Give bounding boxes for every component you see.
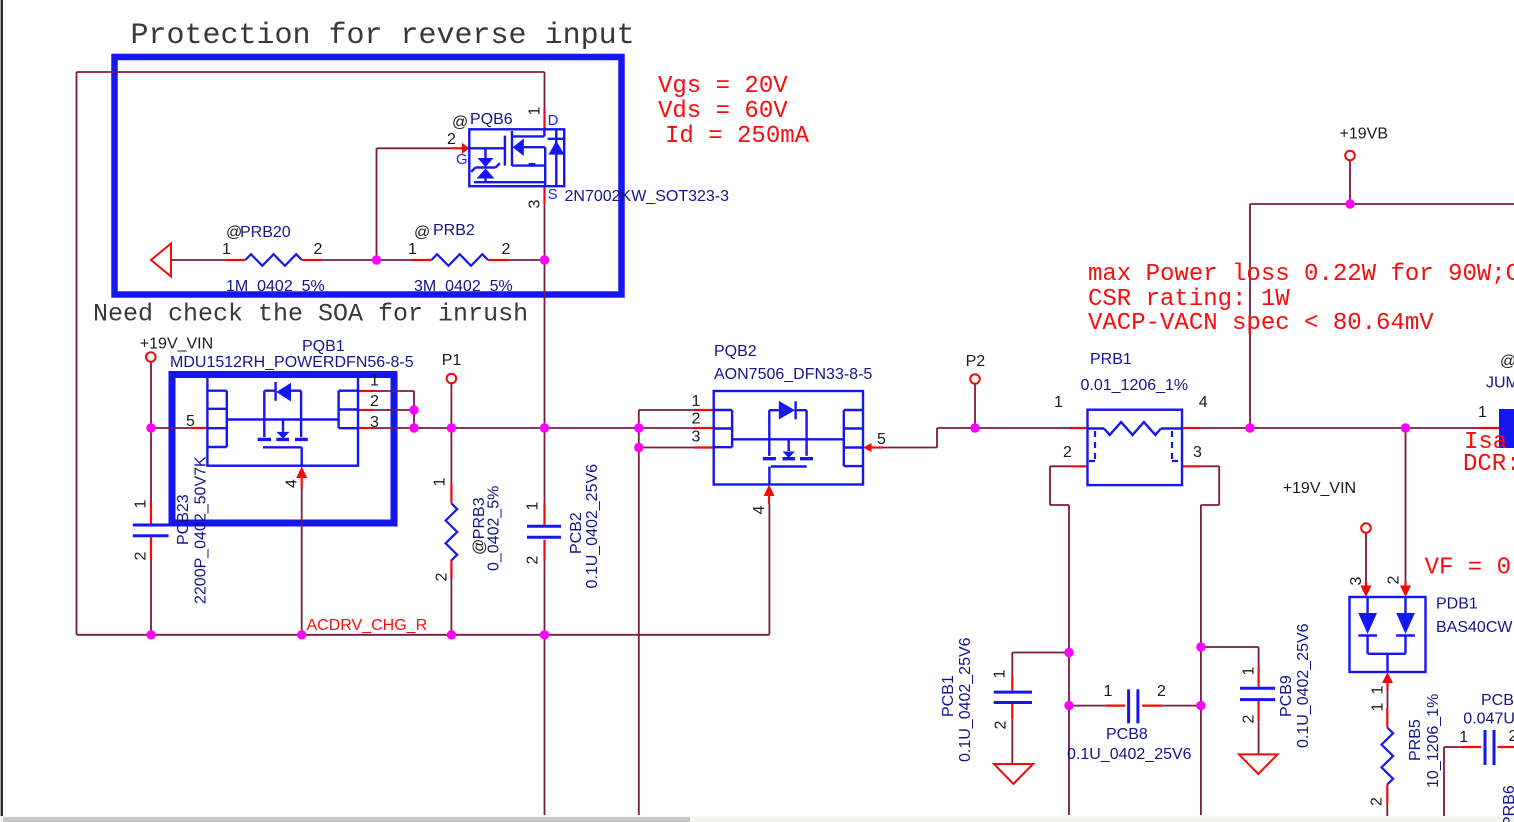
svg-text:PRB5: PRB5 [1407,719,1424,761]
svg-text:1: 1 [222,241,231,258]
svg-text:CSR rating: 1W: CSR rating: 1W [1088,286,1290,313]
svg-text:4: 4 [751,505,768,514]
svg-text:@: @ [471,539,488,555]
svg-text:2: 2 [1157,683,1166,700]
svg-text:@: @ [414,224,430,241]
svg-text:3: 3 [1348,576,1365,585]
svg-text:1: 1 [692,393,701,410]
svg-text:D: D [548,112,559,129]
svg-text:PRB1: PRB1 [1090,351,1132,368]
svg-text:PQB1: PQB1 [302,338,345,355]
svg-text:Vds = 60V: Vds = 60V [658,98,788,125]
svg-text:0.1U_0402_25V6: 0.1U_0402_25V6 [957,637,974,762]
svg-text:1: 1 [525,501,542,510]
svg-text:@: @ [1500,353,1514,370]
svg-text:2: 2 [1509,728,1514,745]
svg-text:3: 3 [1193,444,1202,461]
svg-text:+19V_VIN: +19V_VIN [1283,480,1356,497]
svg-text:BAS40CW: BAS40CW [1436,619,1513,636]
svg-text:4: 4 [1199,394,1208,411]
svg-text:PCB23: PCB23 [175,494,192,545]
svg-text:1: 1 [527,106,544,115]
svg-text:VF = 0: VF = 0 [1425,555,1511,582]
svg-text:0.047U: 0.047U [1463,711,1514,728]
svg-text:1: 1 [992,669,1009,678]
svg-text:PRB20: PRB20 [240,224,291,241]
svg-text:PDB1: PDB1 [1436,596,1478,613]
svg-text:1: 1 [1370,702,1387,711]
svg-text:JUM: JUM [1486,375,1514,392]
svg-text:2: 2 [993,720,1010,729]
svg-text:PRB6: PRB6 [1501,785,1514,822]
svg-text:PCB1: PCB1 [940,675,957,717]
svg-text:3M_0402_5%: 3M_0402_5% [414,278,513,295]
svg-text:2: 2 [1369,797,1386,806]
svg-text:Protection for reverse input: Protection for reverse input [131,19,635,53]
svg-text:PCB8: PCB8 [1106,726,1148,743]
svg-text:PQB2: PQB2 [714,343,757,360]
svg-text:2N7002KW_SOT323-3: 2N7002KW_SOT323-3 [565,188,730,205]
svg-text:2: 2 [692,411,701,428]
svg-text:VACP-VACN spec < 80.64mV: VACP-VACN spec < 80.64mV [1088,310,1434,337]
svg-text:2: 2 [1063,444,1072,461]
svg-text:Id = 250mA: Id = 250mA [665,123,810,150]
svg-text:1: 1 [370,373,379,390]
svg-text:5: 5 [186,413,195,430]
svg-text:+19V_VIN: +19V_VIN [140,336,213,353]
svg-text:PCB2: PCB2 [568,512,585,554]
svg-text:AON7506_DFN33-8-5: AON7506_DFN33-8-5 [714,366,872,383]
svg-text:2: 2 [447,131,456,148]
svg-text:1M_0402_5%: 1M_0402_5% [226,278,325,295]
svg-text:1: 1 [1104,683,1113,700]
svg-text:3: 3 [692,429,701,446]
svg-text:1: 1 [1459,729,1468,746]
svg-text:1: 1 [1478,404,1487,421]
svg-text:5: 5 [877,431,886,448]
svg-text:2200P_0402_50V7K: 2200P_0402_50V7K [192,456,209,604]
svg-text:ACDRV_CHG_R: ACDRV_CHG_R [307,617,428,634]
svg-text:PCB9: PCB9 [1278,675,1295,717]
svg-text:2: 2 [370,393,379,410]
svg-text:2: 2 [502,241,511,258]
svg-text:0.1U_0402_25V6: 0.1U_0402_25V6 [1067,746,1192,763]
svg-text:10_1206_1%: 10_1206_1% [1425,694,1442,788]
svg-text:1: 1 [1370,685,1387,694]
svg-text:@: @ [226,224,242,241]
svg-text:2: 2 [1386,575,1403,584]
svg-text:0.01_1206_1%: 0.01_1206_1% [1081,377,1189,394]
svg-text:PQB6: PQB6 [470,111,513,128]
svg-text:2: 2 [133,551,150,560]
svg-text:2: 2 [1241,714,1258,723]
svg-text:0_0402_5%: 0_0402_5% [485,486,502,571]
svg-text:Need check the SOA for inrush: Need check the SOA for inrush [93,300,528,329]
svg-text:S: S [548,186,558,203]
svg-text:2: 2 [525,555,542,564]
svg-text:1: 1 [408,241,417,258]
svg-text:1: 1 [1054,394,1063,411]
svg-text:MDU1512RH_POWERDFN56-8-5: MDU1512RH_POWERDFN56-8-5 [170,354,414,371]
svg-text:2: 2 [434,572,451,581]
svg-text:P1: P1 [442,352,462,369]
svg-text:3: 3 [370,414,379,431]
svg-text:3: 3 [527,199,544,208]
svg-text:G: G [456,151,468,168]
svg-text:4: 4 [284,479,301,488]
svg-text:2: 2 [314,241,323,258]
svg-text:1: 1 [432,477,449,486]
svg-text:PRB2: PRB2 [433,222,475,239]
svg-text:PCB: PCB [1481,692,1514,709]
svg-text:max Power loss 0.22W for 90W;C: max Power loss 0.22W for 90W;C [1088,261,1514,288]
svg-text:0.1U_0402_25V6: 0.1U_0402_25V6 [1295,623,1312,748]
svg-text:0.1U_0402_25V6: 0.1U_0402_25V6 [584,464,601,589]
svg-text:+19VB: +19VB [1340,126,1388,143]
svg-text:Vgs = 20V: Vgs = 20V [658,73,788,100]
svg-text:DCR:: DCR: [1463,451,1514,478]
svg-text:1: 1 [133,499,150,508]
svg-text:P2: P2 [966,353,986,370]
svg-text:@: @ [452,114,468,131]
svg-text:1: 1 [1241,666,1258,675]
